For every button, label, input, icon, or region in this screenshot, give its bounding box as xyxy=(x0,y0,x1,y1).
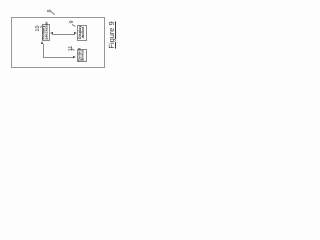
block 11 (bottom right unit) xyxy=(77,49,88,63)
block 9 text xyxy=(79,26,86,39)
label 9 xyxy=(68,18,76,26)
leader tick for 8 xyxy=(51,11,55,15)
double-headed arrow between 10 and 9 xyxy=(52,33,76,36)
block 10 text xyxy=(42,25,49,39)
left arrowhead xyxy=(50,32,53,34)
label 11 xyxy=(67,44,76,53)
outer enclosure box 8 xyxy=(11,17,105,68)
leader tick for 11 xyxy=(71,48,75,51)
L-shaped connecting wire between 10 and 11 xyxy=(42,44,45,58)
block 11 text xyxy=(78,50,85,62)
up arrowhead into block 10 xyxy=(41,41,43,44)
leader tick for 9 xyxy=(72,24,76,27)
label 8 xyxy=(46,7,54,15)
right arrowhead into block 11 xyxy=(73,56,76,58)
leader tick for 10 xyxy=(40,25,44,28)
label 10 xyxy=(34,24,43,33)
block 9 (top right unit) xyxy=(77,25,87,40)
right arrowhead xyxy=(74,32,77,34)
Figure 9 caption (rotated) xyxy=(108,19,116,51)
block 10 (central unit) xyxy=(42,24,50,40)
